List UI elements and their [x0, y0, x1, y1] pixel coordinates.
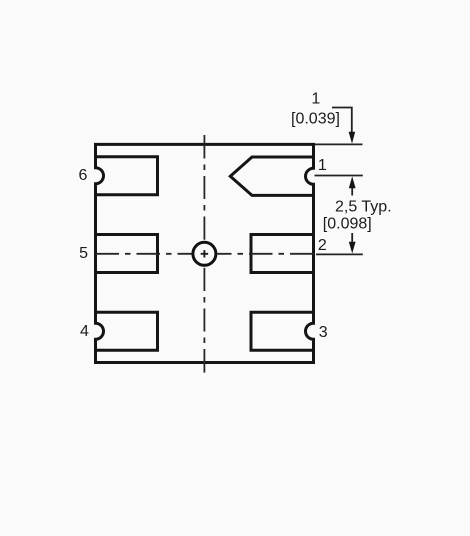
svg-text:1: 1 — [311, 91, 320, 108]
package body outline with corner-pin notches — [96, 144, 314, 362]
pad 1 (top-right, pin-1 pentagon marker) — [230, 157, 313, 195]
svg-text:5: 5 — [79, 245, 88, 262]
vertical centerline (dash-dot) — [203, 135, 205, 373]
pad 3 (bottom-right) — [251, 312, 314, 350]
svg-text:[0.039]: [0.039] — [291, 111, 340, 128]
top edge extension line (right of body) — [315, 143, 363, 145]
svg-text:4: 4 — [80, 323, 89, 340]
center thermal via circle — [193, 242, 216, 265]
pin-1 centerline dimension line — [315, 175, 363, 177]
center cross — [201, 250, 208, 257]
svg-text:1: 1 — [318, 157, 327, 174]
pin-2 centerline dimension line — [316, 253, 363, 255]
pad 4 (bottom-left) — [96, 312, 158, 350]
svg-text:2,5 Typ.: 2,5 Typ. — [335, 199, 392, 216]
pad 6 (top-left) — [96, 157, 158, 195]
svg-text:3: 3 — [319, 324, 328, 341]
svg-text:6: 6 — [79, 167, 88, 184]
arrow down onto pin-2 dimension line, with shaft — [351, 233, 353, 244]
svg-text:2: 2 — [318, 237, 327, 254]
arrow up onto pin-1 dimension line, with shaft — [351, 186, 353, 196]
pad 5 (mid-left) — [96, 235, 158, 273]
pad 2 (mid-right) — [251, 235, 314, 273]
horizontal centerline (dash-dot) — [96, 253, 314, 255]
arrow down onto top edge extension — [349, 132, 356, 144]
leader for dimension 1 [0.039] — [332, 108, 352, 133]
svg-text:[0.098]: [0.098] — [323, 216, 372, 233]
